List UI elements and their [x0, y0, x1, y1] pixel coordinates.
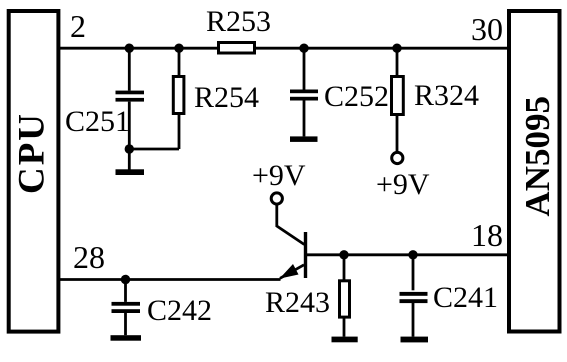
ground (C241): [401, 337, 429, 343]
resistor R243: [340, 255, 350, 337]
node junction C242 top: [121, 275, 130, 284]
svg-text:30: 30: [471, 11, 503, 47]
IC U1 CPU box: [9, 11, 59, 332]
wire: top net from CPU pin 2 to AN5095 pin 30: [60, 47, 507, 50]
svg-text:R254: R254: [194, 81, 259, 114]
svg-text:R253: R253: [206, 5, 271, 38]
terminal +9V (transistor): [271, 193, 282, 204]
node junction C241 top: [408, 250, 417, 259]
svg-text:C251: C251: [65, 105, 130, 138]
node junction R254 top: [174, 44, 183, 53]
svg-text:R243: R243: [265, 286, 330, 319]
capacitor C251: [116, 48, 145, 170]
wire: C251/R254 bottom link: [129, 148, 179, 151]
svg-text:2: 2: [70, 8, 86, 44]
node junction C252 top: [299, 44, 308, 53]
node junction R243 top: [339, 250, 348, 259]
ground (R243): [332, 337, 358, 343]
ground (C252): [290, 136, 318, 142]
node junction C251 top: [125, 44, 134, 53]
wire: transistor base to AN5095 pin 18: [306, 253, 507, 256]
svg-text:18: 18: [471, 217, 503, 253]
resistor R254: [173, 48, 184, 149]
capacitor C241: [400, 255, 428, 337]
terminal +9V (right): [392, 152, 403, 163]
ground (C242): [111, 335, 142, 341]
resistor R324: [392, 48, 404, 152]
svg-text:AN5095: AN5095: [518, 96, 557, 217]
svg-text:C242: C242: [147, 294, 212, 327]
svg-text:C252: C252: [324, 80, 389, 113]
transistor Q1: [277, 205, 306, 279]
resistor R253: [219, 43, 255, 54]
ground (C251): [116, 169, 145, 175]
capacitor C252: [290, 48, 318, 136]
IC U2 AN5095 box: [509, 11, 560, 332]
node junction R324 top: [392, 44, 401, 53]
wire: bottom-left net from CPU pin 28 to transistor emitter: [60, 278, 281, 281]
node junction C251 bottom: [125, 144, 134, 153]
svg-text:+9V: +9V: [376, 168, 430, 201]
svg-text:28: 28: [73, 239, 105, 275]
capacitor C242: [112, 280, 141, 336]
svg-text:R324: R324: [414, 79, 479, 112]
svg-text:CPU: CPU: [12, 112, 53, 194]
svg-text:C241: C241: [433, 281, 498, 314]
svg-text:+9V: +9V: [252, 159, 306, 192]
